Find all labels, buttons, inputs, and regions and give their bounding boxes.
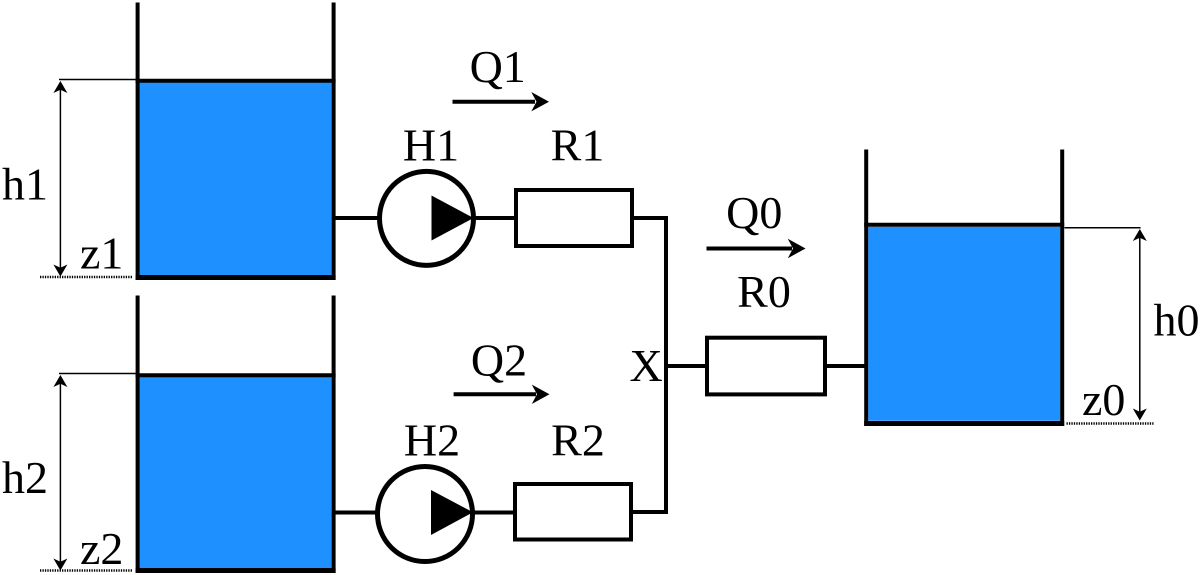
tank T2 bottom (136, 568, 336, 573)
svg-text:Q1: Q1 (470, 41, 526, 92)
svg-text:h0: h0 (1154, 295, 1200, 346)
wire R0 to tank T0 (825, 364, 866, 368)
extension line h2 (59, 373, 138, 375)
wire node X to resistor R0 (666, 364, 707, 368)
pump H1 circle (380, 171, 474, 265)
tank T1 left wall (136, 3, 140, 281)
arrow Q0 (707, 239, 806, 258)
svg-text:R2: R2 (551, 415, 605, 466)
wire pump H2 to resistor R2 (472, 511, 517, 515)
tank T2 left wall (136, 296, 140, 574)
svg-text:z0: z0 (1082, 374, 1125, 425)
svg-text:Q0: Q0 (726, 187, 782, 238)
resistor R2 (515, 484, 631, 540)
tank T1 water surface line (136, 79, 336, 83)
tank T2 right wall (332, 296, 336, 574)
svg-text:R0: R0 (737, 266, 791, 317)
extension line h1 (59, 79, 138, 81)
tank T0 water fill (868, 227, 1060, 421)
tank T1 right wall (332, 3, 336, 281)
svg-text:R1: R1 (551, 119, 605, 170)
svg-text:h1: h1 (2, 159, 48, 210)
tank T0 bottom (864, 421, 1064, 426)
arrow Q2 (454, 385, 550, 404)
tank T2 water surface line (136, 373, 336, 377)
svg-text:H2: H2 (404, 415, 460, 466)
tank T1 bottom (136, 275, 336, 280)
pump H1 triangle (432, 196, 474, 241)
wire tank T1 to pump H1 (335, 216, 380, 220)
wire tank T2 to pump H2 (335, 511, 378, 515)
tank T2 water fill (140, 376, 332, 569)
wire R1 to node X vertical (632, 218, 666, 512)
dotted datum line z0 (1067, 422, 1154, 425)
dotted datum line z2 (40, 569, 133, 572)
tank T0 left wall (864, 150, 868, 427)
tank T0 water surface line (864, 223, 1064, 227)
pump H2 circle (378, 467, 473, 562)
wire pump H1 to resistor R1 (473, 216, 516, 220)
svg-text:h2: h2 (2, 452, 48, 503)
dotted datum line z1 (40, 276, 133, 279)
resistor R1 (516, 190, 632, 246)
arrow Q1 (453, 92, 550, 111)
svg-text:H1: H1 (403, 119, 459, 170)
svg-text:X: X (630, 340, 663, 391)
tank T0 right wall (1060, 150, 1064, 427)
dimension arrow h0 (1133, 229, 1147, 421)
dimension arrow h2 (53, 375, 67, 571)
svg-text:Q2: Q2 (471, 334, 527, 385)
svg-text:z1: z1 (80, 228, 123, 279)
tank T1 water fill (140, 81, 332, 276)
extension line h0 (1065, 227, 1141, 229)
pump H2 triangle (431, 490, 473, 535)
svg-text:z2: z2 (80, 523, 123, 574)
resistor R0 (707, 338, 825, 395)
dimension arrow h1 (53, 81, 67, 277)
